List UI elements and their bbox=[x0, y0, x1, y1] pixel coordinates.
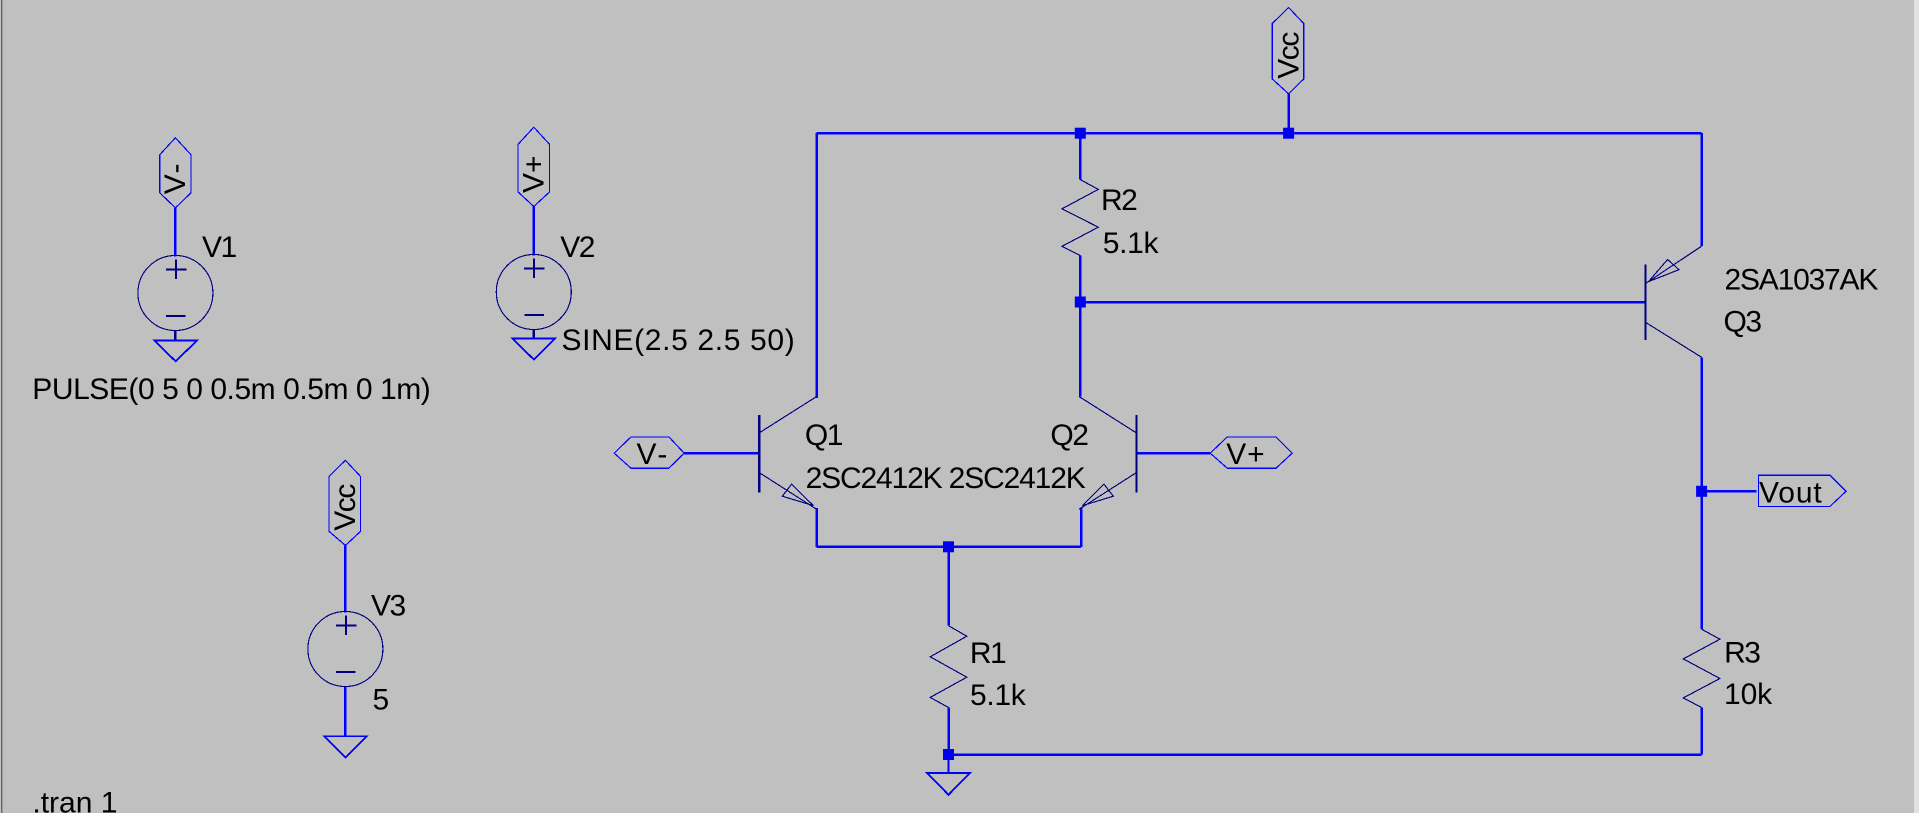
node junction R2 top bbox=[1075, 128, 1086, 139]
wire Q1 collector to rail bbox=[815, 133, 818, 398]
svg-text:Vcc: Vcc bbox=[329, 484, 362, 531]
voltage source V3 bbox=[308, 612, 383, 687]
transistor Q2 bbox=[1079, 397, 1136, 510]
svg-text:Vcc: Vcc bbox=[1272, 32, 1305, 79]
svg-text:2SA1037AK: 2SA1037AK bbox=[1725, 264, 1879, 297]
resistor R3 bbox=[1683, 629, 1720, 707]
flag Vout output port bbox=[1759, 475, 1847, 506]
wire Q2 base to V+ flag bbox=[1136, 452, 1210, 455]
ground below V3 bbox=[324, 736, 367, 757]
wire base rail R2 to Q3 bbox=[1080, 301, 1645, 304]
resistor R2 bbox=[1062, 180, 1098, 256]
svg-text:R1: R1 bbox=[970, 637, 1006, 670]
wire Q2 emitter lead bbox=[1080, 507, 1083, 546]
wire R2 bottom lead bbox=[1079, 256, 1082, 302]
svg-text:V+: V+ bbox=[1226, 438, 1265, 471]
svg-text:V3: V3 bbox=[371, 590, 406, 623]
wire V3 source to ground bbox=[344, 687, 347, 737]
node junction R2 bottom bbox=[1075, 297, 1086, 308]
svg-text:5.1k: 5.1k bbox=[970, 679, 1027, 712]
wire V- flag to Q1 base bbox=[684, 452, 759, 455]
wire Vout stub bbox=[1702, 490, 1757, 493]
node junction Vcc rail bbox=[1283, 128, 1294, 139]
svg-text:PULSE(0 5 0 0.5m 0.5m 0 1m): PULSE(0 5 0 0.5m 0.5m 0 1m) bbox=[32, 373, 430, 406]
svg-text:V2: V2 bbox=[560, 231, 595, 264]
svg-text:R3: R3 bbox=[1724, 637, 1760, 670]
wire R2 top lead bbox=[1079, 133, 1082, 179]
svg-text:SINE(2.5 2.5 50): SINE(2.5 2.5 50) bbox=[562, 324, 796, 357]
svg-text:.tran 1: .tran 1 bbox=[32, 787, 117, 813]
svg-text:V-: V- bbox=[637, 438, 670, 471]
transistor Q3 bbox=[1646, 246, 1702, 357]
wire V3 flag to source bbox=[344, 545, 347, 612]
svg-text:2SC2412K 2SC2412K: 2SC2412K 2SC2412K bbox=[806, 462, 1086, 495]
svg-text:Vout: Vout bbox=[1759, 477, 1823, 510]
wire R2 junction to Q2 collector bbox=[1079, 302, 1082, 397]
svg-text:V+: V+ bbox=[518, 155, 551, 193]
wire Q1 emitter lead bbox=[815, 508, 818, 547]
node junction Vout bbox=[1696, 486, 1707, 497]
wire V1 source to ground bbox=[174, 330, 177, 340]
svg-text:V1: V1 bbox=[202, 231, 237, 264]
flag Vcc above V3 bbox=[329, 460, 360, 545]
wire top Vcc rail bbox=[817, 132, 1702, 135]
wire V1 flag to source bbox=[174, 208, 177, 257]
wire Vcc flag stub bbox=[1287, 94, 1290, 133]
wire R3 bottom lead bbox=[1700, 708, 1703, 755]
svg-text:V-: V- bbox=[159, 161, 192, 194]
voltage source V1 bbox=[138, 256, 213, 331]
svg-text:R2: R2 bbox=[1101, 184, 1137, 217]
wire emitter rail bbox=[817, 546, 1082, 549]
ground below V2 bbox=[513, 339, 556, 360]
wire Q3 emitter to rail bbox=[1700, 133, 1703, 246]
wire Vout node to R3 bbox=[1700, 491, 1703, 629]
flag V+ input port bbox=[1210, 437, 1292, 468]
wire R1 bottom lead bbox=[947, 708, 950, 755]
voltage source V2 bbox=[496, 255, 571, 330]
flag V- above V1 bbox=[160, 138, 191, 208]
svg-text:Q3: Q3 bbox=[1724, 306, 1762, 339]
wire V2 flag to source bbox=[533, 207, 536, 256]
transistor Q1 bbox=[759, 397, 816, 510]
node junction R1 bottom bbox=[943, 749, 954, 760]
svg-text:Q2: Q2 bbox=[1050, 419, 1088, 452]
ground below V1 bbox=[154, 340, 197, 361]
resistor R1 bbox=[930, 626, 967, 708]
node junction R1 top bbox=[943, 541, 954, 552]
svg-text:5: 5 bbox=[373, 684, 390, 717]
ground below R1 bbox=[927, 755, 970, 795]
flag Vcc top rail bbox=[1272, 8, 1303, 94]
wire V2 source to ground bbox=[533, 329, 536, 338]
flag V+ above V2 bbox=[518, 127, 549, 206]
wire Q3 collector to Vout node bbox=[1700, 357, 1703, 491]
svg-text:Q1: Q1 bbox=[805, 419, 843, 452]
wire R1 top lead bbox=[947, 547, 950, 626]
svg-text:5.1k: 5.1k bbox=[1103, 227, 1160, 260]
wire ground rail bbox=[949, 753, 1702, 756]
flag V- input port bbox=[614, 437, 684, 468]
svg-text:10k: 10k bbox=[1724, 678, 1773, 711]
